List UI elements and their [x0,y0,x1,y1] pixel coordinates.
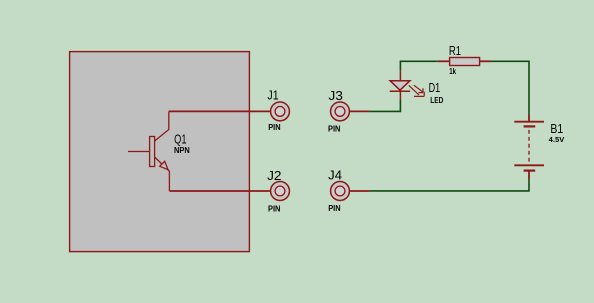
svg-text:1k: 1k [449,67,456,76]
svg-text:PIN: PIN [268,204,281,213]
svg-text:4.5V: 4.5V [549,137,565,144]
svg-text:PIN: PIN [328,204,341,213]
svg-text:J3: J3 [328,88,343,103]
svg-text:LED: LED [430,96,443,105]
svg-text:PIN: PIN [268,123,281,132]
svg-text:Q1: Q1 [174,131,186,146]
svg-text:B1: B1 [550,121,563,136]
svg-text:PIN: PIN [328,125,341,134]
svg-text:J2: J2 [267,168,281,183]
svg-text:R1: R1 [449,43,461,58]
svg-text:J1: J1 [267,87,278,102]
svg-text:J4: J4 [328,168,342,183]
svg-text:NPN: NPN [174,146,190,155]
svg-text:D1: D1 [429,80,441,95]
